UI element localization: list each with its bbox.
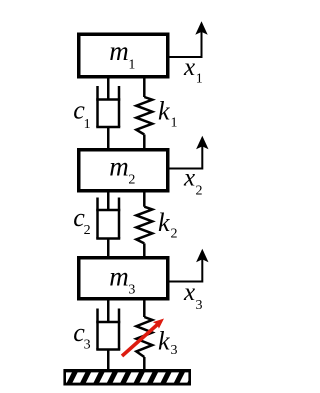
label m2 xyxy=(109,151,135,187)
wire rod bottom xyxy=(107,127,110,150)
label c2 xyxy=(73,203,90,238)
label x2 xyxy=(183,165,203,199)
arrow x3 xyxy=(170,249,209,282)
svg-text:m: m xyxy=(109,36,129,66)
svg-text:3: 3 xyxy=(128,283,135,298)
mass m1 xyxy=(79,34,168,77)
arrow x1 xyxy=(170,21,208,57)
damper C3 xyxy=(96,299,120,370)
svg-text:3: 3 xyxy=(84,338,91,353)
svg-text:1: 1 xyxy=(171,116,178,131)
damper C1 xyxy=(96,77,120,150)
label c3 xyxy=(73,318,90,353)
svg-text:m: m xyxy=(109,261,129,291)
wire rod top xyxy=(107,299,110,322)
mass m3 xyxy=(79,258,168,299)
cylinder bottom xyxy=(96,348,120,351)
piston plate xyxy=(96,321,120,324)
coil xyxy=(136,317,152,357)
piston plate xyxy=(96,209,120,212)
coil xyxy=(136,97,152,135)
wire rod bottom xyxy=(143,357,146,370)
svg-text:3: 3 xyxy=(171,343,178,358)
spring k1 xyxy=(136,77,152,150)
ground xyxy=(59,369,193,386)
cylinder walls xyxy=(96,86,99,127)
wire rod top xyxy=(143,191,146,207)
svg-text:m: m xyxy=(109,151,129,181)
wire rod bottom xyxy=(107,239,110,259)
cylinder bottom xyxy=(96,237,120,240)
spring k2 xyxy=(136,191,152,258)
arrow x2 xyxy=(170,136,209,169)
label c1 xyxy=(73,95,90,131)
red variable-stiffness arrow over k3 xyxy=(122,319,164,357)
label m3 xyxy=(109,261,135,297)
wire rod bottom xyxy=(143,135,146,151)
svg-text:1: 1 xyxy=(128,58,135,73)
label k1 xyxy=(158,96,178,130)
svg-text:1: 1 xyxy=(84,117,91,132)
svg-text:2: 2 xyxy=(171,227,178,242)
cylinder walls xyxy=(96,198,99,239)
svg-text:x: x xyxy=(183,54,195,81)
label m1 xyxy=(109,36,135,72)
damper C2 xyxy=(96,191,120,258)
wire rod top xyxy=(143,299,146,317)
svg-text:x: x xyxy=(183,279,195,306)
wire rod top xyxy=(143,77,146,97)
svg-text:3: 3 xyxy=(196,298,203,313)
svg-text:2: 2 xyxy=(128,173,135,188)
wire rod top xyxy=(107,77,110,100)
spring k3 xyxy=(136,299,152,370)
wire rod bottom xyxy=(143,243,146,258)
cylinder bottom xyxy=(96,126,120,129)
svg-text:k: k xyxy=(158,208,170,237)
svg-text:x: x xyxy=(183,165,195,192)
svg-text:k: k xyxy=(158,96,170,125)
svg-text:2: 2 xyxy=(84,223,91,238)
svg-text:2: 2 xyxy=(196,183,203,198)
cylinder walls xyxy=(96,309,99,350)
label k2 xyxy=(158,208,178,242)
piston plate xyxy=(96,98,120,101)
label x1 xyxy=(183,54,203,87)
svg-text:k: k xyxy=(158,327,170,356)
wire rod top xyxy=(107,191,110,210)
label x3 xyxy=(183,279,203,313)
label k3 xyxy=(158,327,178,358)
mass m2 xyxy=(79,150,168,191)
svg-text:1: 1 xyxy=(196,71,203,86)
coil xyxy=(136,207,152,244)
wire rod bottom xyxy=(107,350,110,371)
